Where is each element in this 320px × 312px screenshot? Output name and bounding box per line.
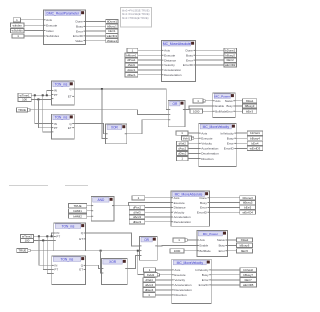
svg-text:Acceleration: Acceleration [164,68,181,72]
value box bVel1 (U6 input 2) [182,136,194,140]
svg-text:bIn2:=TRUE(E:TRUE): bIn2:=TRUE(E:TRUE) [122,16,149,20]
wire U2 input 3 [138,59,162,61]
comment box (watch list) [121,8,152,28]
wire U2 input 5 [138,69,162,71]
svg-text:dDec1: dDec1 [127,73,136,77]
wire U6 input 2 [194,137,199,139]
wire U7 input 2 [87,210,92,212]
value box bBusy2 (U2 output 2) [224,53,237,57]
wire U1 input 2 [24,24,44,26]
value box bErr5 (U8 output 3) [240,205,256,209]
wire U4 OR output to U5 Enable [185,106,213,110]
wire U6 input 4 [188,147,199,149]
wire vertical to T2.PT [38,99,51,127]
junction b2 [38,235,40,237]
svg-text:100: 100 [25,239,30,243]
value box bBusy5 (U8 output 2) [240,201,256,205]
value box TRUE (bottom) [17,248,30,252]
value box bBusy4 (U6 output 2) [247,136,263,140]
svg-text:DMC_ReadParameter: DMC_ReadParameter [46,12,80,16]
svg-text:Error: Error [200,206,207,210]
svg-text:dDec4: dDec4 [145,288,154,292]
svg-text:ET: ET [79,237,83,241]
svg-text:wSubIdx: wSubIdx [12,29,24,33]
value box 1 (U6 input 6) [177,157,189,161]
value box bSta1 (U5 output 1) [243,99,257,103]
wire U5 output 2 [235,105,242,107]
svg-text:Velocity: Velocity [174,278,185,282]
value box dPos2 (U8 input 3) [129,205,145,209]
svg-text:dDec2: dDec2 [178,152,187,156]
svg-text:Deceleration: Deceleration [174,288,192,292]
value box dDec1 (U2 input 6) [125,73,138,77]
wire U12 output 1 [211,269,240,271]
svg-text:ErrorID: ErrorID [73,34,84,38]
svg-text:100: 100 [22,98,27,102]
function block U1 DMC_ReadParameter [44,10,86,45]
wire U2 output 4 [196,64,225,66]
value box 1 (U6 input 1) [176,131,188,135]
wire U6 input 1 [188,132,199,134]
svg-text:Deceleration: Deceleration [164,73,182,77]
wire T1.IN jog [47,90,52,95]
svg-text:PT: PT [54,126,58,130]
function block U9 XOR [101,259,127,285]
wire TRUE bus bottom to U10 OR input2 [30,250,139,252]
wire U12 input 3 [155,279,172,281]
svg-text:dVel1: dVel1 [128,63,136,67]
wire U5 Axis [206,100,213,102]
svg-text:Error: Error [76,29,83,33]
svg-text:bInVel1: bInVel1 [250,131,260,135]
wire U5 output 3 [235,110,242,112]
svg-text:MC_MoveAbsolute: MC_MoveAbsolute [163,42,191,46]
wire vertical to T4 third pin [47,236,52,273]
wire U6 output 2 [236,137,247,139]
svg-text:Busy: Busy [219,244,226,248]
value box 100 (bottom) [20,238,33,242]
wire U11 output 3 [227,250,237,252]
value box bMove1 (U2 input 2) [125,53,138,57]
svg-text:ErrorID: ErrorID [197,210,208,214]
wire vertical to T2.IN [35,95,52,123]
wire U1 output 4 [86,35,106,37]
value box 1000 (U5 BufMode) [190,109,203,113]
svg-text:Error: Error [186,58,193,62]
svg-text:bBusy2: bBusy2 [225,53,235,57]
svg-text:Busy: Busy [227,136,234,140]
svg-text:Acceleration: Acceleration [174,283,191,287]
function block U2 MC_MoveAbsolute [162,41,196,82]
svg-text:bBusy7: bBusy7 [243,273,253,277]
svg-text:Execute: Execute [174,201,185,205]
svg-text:XOR: XOR [109,260,117,264]
svg-text:bErr4: bErr4 [251,141,258,145]
wire U12 output 3 [211,279,240,281]
wire U1 input 1 [21,19,44,21]
wire U1 input 4 [24,35,44,37]
svg-text:Done: Done [185,49,193,53]
svg-text:Error: Error [202,278,209,282]
svg-text:bBusy4: bBusy4 [250,136,260,140]
wire U12 input 1 [156,269,172,271]
junction bus branch [100,250,102,252]
svg-text:1000: 1000 [193,109,200,113]
function block U6 MC_MoveVelocity [199,123,237,166]
svg-text:1000: 1000 [174,249,181,253]
value box dDec3 (U8 input 6) [129,220,145,224]
svg-text:Busy: Busy [76,25,83,29]
svg-text:Distance: Distance [164,58,176,62]
wire U7 output to U8 Execute [114,203,171,206]
junction [46,94,48,96]
svg-text:dAcc2: dAcc2 [178,147,186,151]
wire U2 output 3 [196,59,225,61]
value box bErr7 (U12 output 3) [240,278,257,282]
wire U1 output 3 [86,30,106,32]
wire U2 output 1 [196,49,225,51]
svg-text:Direction: Direction [201,157,213,161]
value box dVel2 (U6 input 3) [177,141,189,145]
svg-text:bInVel2: bInVel2 [243,268,253,272]
wire T3.Q to U10 OR input1 [86,233,140,246]
value box bDone3 (U8 output 1) [240,196,256,200]
svg-text:XOR: XOR [111,126,119,130]
svg-text:TON_ms: TON_ms [55,116,68,120]
wire U2 output 2 [196,54,225,56]
svg-text:TRUE: TRUE [18,249,26,253]
wire U7 input 1 [87,205,92,207]
junction [42,94,44,96]
wire U12 input 2 [160,274,172,276]
svg-text:Execute: Execute [46,23,57,27]
svg-text:Velocity: Velocity [174,210,185,214]
function block U7 AND [91,197,114,221]
wire vertical to T2 third pin [43,95,52,132]
svg-text:Busy: Busy [226,104,233,108]
wire U12 input 5 [155,289,172,291]
wire U7 input 3 [87,215,92,217]
value box bSta2 (U11 output 1) [237,238,253,242]
value box bHMI1 (U7 input 2) [69,209,87,213]
svg-text:Axis: Axis [201,131,207,135]
function block T2 TON_ms [51,114,74,139]
svg-text:bHMI1: bHMI1 [73,209,82,213]
svg-text:wErrID4: wErrID4 [242,210,253,214]
svg-text:dAcc4: dAcc4 [145,283,153,287]
value box 1 (U11 Axis) [173,238,187,242]
wire T2.Q to U3 input1 [74,124,105,134]
wire U5 output 1 [235,100,242,102]
svg-text:Busy: Busy [202,273,209,277]
svg-text:wIndex: wIndex [13,23,23,27]
svg-text:Axis: Axis [215,99,221,103]
wire T1.Q to U4 OR input1 [74,89,168,110]
wire box pair row1 to T1.PT [31,94,51,96]
value box dVel1 (U2 input 4) [125,63,138,67]
svg-text:wErrID5: wErrID5 [243,283,254,287]
svg-text:MC_MoveVelocity: MC_MoveVelocity [177,261,204,265]
value box 1 (U12 input 1) [144,268,156,272]
svg-text:bIn0:=FALSE(E:TRUE): bIn0:=FALSE(E:TRUE) [122,8,150,12]
svg-text:dValue1: dValue1 [107,39,118,43]
svg-text:Done: Done [199,196,207,200]
junction [37,98,39,100]
svg-text:dPos1: dPos1 [127,58,136,62]
svg-text:Execute: Execute [201,136,212,140]
wire U2 input 4 [138,64,162,66]
svg-text:BufMode: BufMode [215,109,227,113]
function block U10 OR [140,236,158,260]
svg-text:MC_MoveVelocity: MC_MoveVelocity [203,125,230,129]
svg-text:wErrID1: wErrID1 [107,34,118,38]
wire U11 Axis [187,239,197,241]
wire T4.Q to U9 input1 [86,265,102,268]
svg-text:ET: ET [68,95,72,99]
svg-text:bHMI2: bHMI2 [73,214,82,218]
junction T1.Q branch [101,88,103,90]
wire U1 input 3 [24,30,44,32]
value box dAcc4 (U12 input 4) [143,283,155,287]
wire U3 output to U4 OR input3 [127,120,169,134]
svg-text:Distance: Distance [174,206,186,210]
value box bInVel2 (U12 output 1) [240,268,257,272]
svg-text:Deceleration: Deceleration [174,220,192,224]
svg-text:Status: Status [225,99,234,103]
svg-text:InVelocity: InVelocity [220,131,234,135]
wire U2 input 1 [138,49,162,51]
svg-text:bErr7: bErr7 [245,278,252,282]
function block T4 TON_ms [52,256,86,285]
wire U2 input 6 [138,74,162,76]
function block T3 TON_ms [54,223,86,251]
wire U6 output 4 [236,147,247,149]
svg-text:Axis: Axis [46,18,52,22]
value box wTime1 (T1 PT source) [18,93,31,97]
svg-text:TRUE: TRUE [18,108,26,112]
svg-text:dVel3: dVel3 [133,210,141,214]
svg-text:Axis: Axis [174,196,180,200]
wire box pair row2 to T1 third pin [31,98,51,100]
svg-text:OR: OR [144,238,149,242]
wire U1 output 5 [86,40,106,42]
value box wErrID1 (U1 output 4) [106,34,118,38]
function block U5 MC_Power [213,93,236,118]
wire U12 input 6 [155,294,172,296]
function block U8 MC_MoveAbsolute [171,191,210,226]
wire U8 input 3 [145,206,171,208]
svg-text:BufMode: BufMode [200,249,212,253]
value box bBusy1 (U1 output 2) [106,24,118,28]
value box 1 (U2 input 1) [127,48,138,52]
value box bErr3 (U5 output 3) [243,109,257,113]
value box 100 [18,97,31,101]
wire T1.Q branch to U3 input2 [102,89,106,138]
value box 1000 (U11 BufMode) [170,249,184,253]
svg-text:PT: PT [54,93,58,97]
wire U9 output to U10 OR input3 [127,256,139,269]
wire U11 output 2 [227,244,237,246]
junction b3 [46,235,48,237]
value box bInVel1 (U6 output 1) [247,131,263,135]
svg-text:Direction: Direction [174,293,186,297]
svg-text:Deceleration: Deceleration [201,152,219,156]
svg-text:TON_ms: TON_ms [62,224,75,228]
value box dPos1 (U2 input 3) [125,58,138,62]
wire U12 input 4 [155,284,172,286]
value box 1 (U1 input 1) [13,18,20,22]
value box dVel4 (U12 input 3) [143,278,155,282]
svg-text:MC_Power: MC_Power [215,94,230,98]
value box wSubIdx (U1 input 3) [11,29,25,33]
svg-text:PT: PT [54,268,58,272]
svg-text:bVel2: bVel2 [147,273,155,277]
wire U10 OR output to U11 Enable [157,244,197,247]
svg-text:Index: Index [46,29,54,33]
svg-text:bBusy1: bBusy1 [107,24,117,28]
svg-text:bDone2: bDone2 [225,48,236,52]
wire box pair row2 to T3 third pin [34,239,54,241]
svg-text:bDone1: bDone1 [107,20,118,24]
svg-text:Error: Error [227,142,234,146]
wire U11 BufMode [184,250,197,252]
svg-text:bErr6: bErr6 [241,249,248,253]
value box bDone2 (U2 output 1) [224,48,237,52]
svg-text:ErrorID: ErrorID [183,63,194,67]
svg-text:bBusy3: bBusy3 [245,104,255,108]
svg-text:Error: Error [226,109,232,113]
svg-text:bBusy5: bBusy5 [243,201,253,205]
svg-text:ET: ET [68,126,72,130]
svg-text:Enable: Enable [200,244,209,248]
svg-text:MC_Power: MC_Power [203,232,218,236]
function block T1 TON_ms [51,81,74,105]
svg-text:TRUE: TRUE [74,204,82,208]
svg-text:bVel1: bVel1 [183,136,191,140]
wire U2 input 2 [138,54,162,56]
wire U8 input 6 [145,221,171,223]
svg-text:Velocity: Velocity [201,142,212,146]
function block U4 OR [168,100,185,126]
wire U8 input 4 [145,211,171,213]
value box 1 (U12 input 6) [143,293,155,297]
value box wErrID2 (U2 output 4) [224,63,237,67]
value box TRUE (U7 input 1) [69,204,87,208]
wire T3.IN jog [52,233,54,236]
svg-text:dAcc1: dAcc1 [127,68,135,72]
svg-text:wErrID2: wErrID2 [225,63,236,67]
svg-text:wErrID3: wErrID3 [250,147,261,151]
svg-text:Error: Error [219,249,225,253]
svg-text:Value: Value [75,39,83,43]
value box bErr1 (U1 output 3) [106,29,118,33]
junction b1 [51,235,53,237]
wire U12 output 2 [211,274,240,276]
value box wErrID5 (U12 output 4) [240,283,257,287]
wire U8 input 5 [145,216,171,218]
wire bus to U12 Execute [138,251,144,275]
wire bus branch to U9 input2 [100,251,103,273]
svg-text:Busy: Busy [186,53,193,57]
svg-text:Acceleration: Acceleration [174,215,191,219]
svg-text:bIn1:=FALSE(E:TRUE): bIn1:=FALSE(E:TRUE) [122,12,150,16]
junction b4 [42,239,44,241]
value box TRUE [17,108,30,112]
value box bBusy6 (U11 output 2) [237,243,253,247]
svg-text:TON_ms: TON_ms [61,257,74,261]
wire U8 Axis [145,197,171,199]
function block U3 XOR [106,124,127,144]
svg-text:ET: ET [79,268,83,272]
wire U1 output 1 [86,21,106,23]
wire U8 output 4 [210,211,241,213]
svg-text:SubIndex: SubIndex [46,34,60,38]
value box wTime2 (T3 PT source) [20,234,33,238]
svg-text:dDec3: dDec3 [133,220,142,224]
svg-text:dVel2: dVel2 [179,141,187,145]
svg-text:dVel4: dVel4 [145,278,153,282]
junction [34,94,36,96]
wire vertical to T4.PT [43,240,52,269]
svg-text:Done: Done [75,20,83,24]
svg-text:bMove1: bMove1 [126,53,137,57]
value box dVel3 (U8 input 4) [129,210,145,214]
wire U12 output 4 [211,284,240,286]
wire U11 output 1 [227,239,237,241]
svg-text:Status: Status [217,238,226,242]
svg-text:bSta2: bSta2 [241,238,249,242]
value box bBusy7 (U12 output 2) [240,273,257,277]
function block U12 MC_MoveVelocity [172,259,211,303]
value box dDec2 (U6 input 5) [177,151,189,155]
value box dValue1 (U1 output 5) [106,39,118,43]
svg-text:TON_ms: TON_ms [55,83,68,87]
value box dDec4 (U12 input 5) [143,288,155,292]
wire U6 input 6 [188,158,199,160]
svg-text:Velocity: Velocity [164,63,175,67]
svg-text:Axis: Axis [200,238,206,242]
network separator line [9,185,48,187]
svg-text:dPos2: dPos2 [133,206,142,210]
wire U6 input 3 [188,142,199,144]
value box dAcc3 (U8 input 5) [129,215,145,219]
value box bDone1 (U1 output 1) [106,19,118,23]
value box wErrID3 (U6 output 4) [247,146,263,150]
value box 1 (U5 Axis) [193,99,205,103]
svg-text:OR: OR [173,102,178,106]
value box 1 (U1 input 4) [12,34,24,38]
value box bErr2 (U2 output 3) [224,58,237,62]
svg-text:bErr1: bErr1 [108,29,115,33]
svg-text:ErrorID: ErrorID [224,147,235,151]
value box wErrID4 (U8 output 4) [240,210,256,214]
junction bus branch 2 [137,250,139,252]
wire U1 output 2 [86,25,106,27]
value box bHMI2 (U7 input 3) [69,214,87,218]
svg-text:Enable: Enable [215,104,224,108]
svg-text:bDone3: bDone3 [243,196,254,200]
svg-text:Busy: Busy [200,201,207,205]
value box 1 (U8 Axis) [132,196,145,200]
svg-text:bErr5: bErr5 [244,206,251,210]
value box bVel2 (U12 input 2) [144,273,160,277]
value box dAcc1 (U2 input 5) [125,68,138,72]
wire U8 output 3 [210,206,241,208]
svg-text:InVelocity: InVelocity [195,268,209,272]
svg-text:PT: PT [56,235,60,239]
function block U11 MC_Power [197,230,228,256]
wire U6 output 1 [236,132,247,134]
